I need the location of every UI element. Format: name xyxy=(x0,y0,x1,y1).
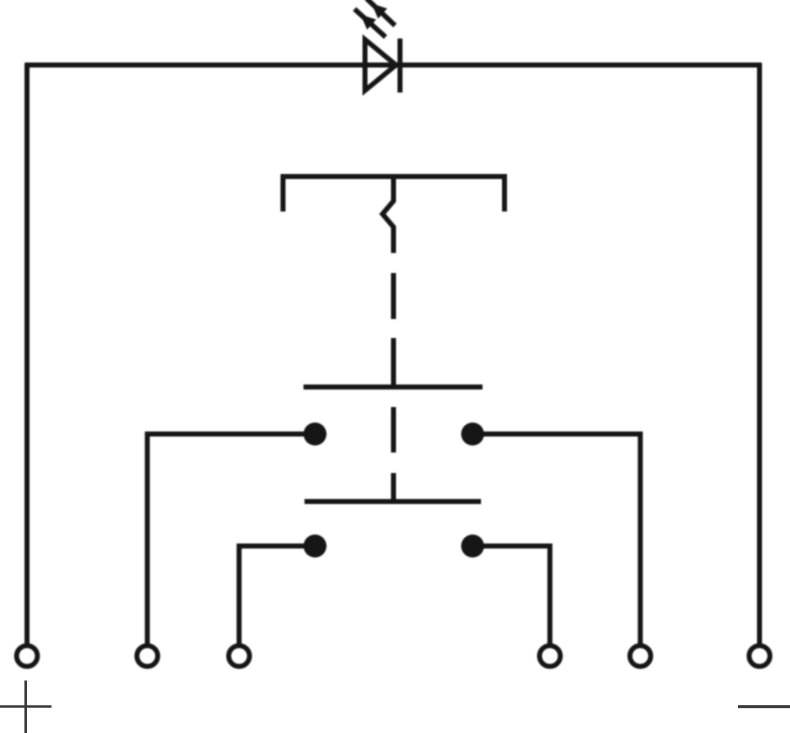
wire left rail vertical xyxy=(25,63,30,644)
mechanical linkage dash 4 (to contact bridge 2) xyxy=(391,473,396,502)
mechanical linkage stem with kink xyxy=(383,177,394,254)
pushbutton actuator bracket xyxy=(283,177,505,212)
wire contact 2 right to terminal 4 xyxy=(473,546,550,644)
terminal 2 xyxy=(137,646,158,667)
registration dash mark bottom-right xyxy=(738,705,790,708)
LED D1 cathode bar xyxy=(398,39,403,93)
terminal 4 xyxy=(540,646,561,667)
registration cross mark bottom-left xyxy=(0,705,52,708)
LED D1 triangle (anode) xyxy=(365,40,396,91)
LED D1 emission arrow 1 (lower-left) xyxy=(355,9,386,37)
fixed contact dot 2 right xyxy=(461,535,484,558)
LED D1 emission arrow 2 (upper-right) xyxy=(367,0,396,26)
mechanical linkage dash 1 xyxy=(391,273,396,319)
mechanical linkage dash 2 (to contact bridge 1) xyxy=(391,338,396,387)
wire right rail vertical xyxy=(757,63,762,644)
wire contact 1 right to terminal 5 xyxy=(473,434,641,644)
wire contact 2 left to terminal 3 xyxy=(239,546,315,644)
fixed contact dot 1 right xyxy=(461,423,484,446)
terminal 1 (left rail) xyxy=(17,646,38,667)
wire contact 1 left to terminal 2 xyxy=(147,434,315,644)
fixed contact dot 2 left xyxy=(304,535,327,558)
fixed contact dot 1 left xyxy=(304,423,327,446)
mechanical linkage dash 3 xyxy=(391,407,396,453)
contact bridge bar 2 xyxy=(305,499,482,504)
wire top horizontal rail xyxy=(25,63,762,68)
terminal 6 (right rail) xyxy=(749,646,770,667)
terminal 3 xyxy=(229,646,250,667)
terminal 5 xyxy=(630,646,651,667)
contact bridge bar 1 xyxy=(304,385,483,390)
